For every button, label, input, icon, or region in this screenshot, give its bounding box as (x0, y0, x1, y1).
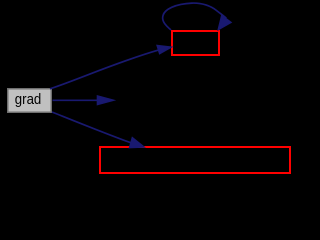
top node (red, truncated) (172, 31, 219, 55)
self loop on top node (163, 3, 232, 30)
edge grad to top node (50, 45, 172, 89)
edge grad to middle (hidden node) (53, 96, 115, 105)
svg-text:grad: grad (15, 91, 42, 108)
node grad (7, 88, 52, 113)
bottom node (red, truncated) (100, 147, 290, 173)
edge grad to bottom node (52, 112, 145, 148)
